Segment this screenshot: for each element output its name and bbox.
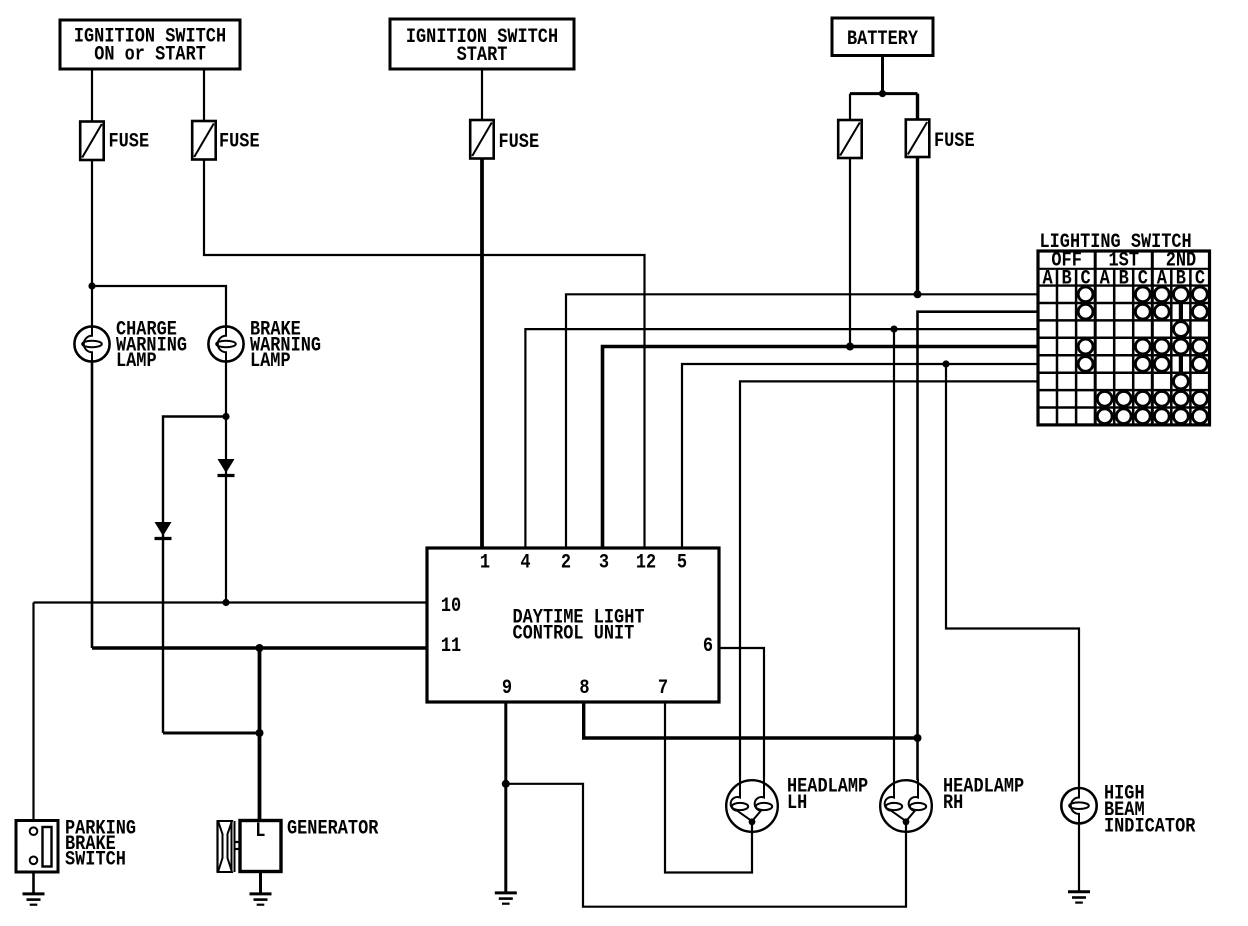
label: PARKING BRAKE SWITCH [65,818,136,872]
wire: pin 10 horizontal line [34,601,428,603]
node: junction on pin 9 wire [502,780,510,788]
wire: diode D2 branch horizontal [163,732,260,735]
wire: pin 8 to RH junction [584,702,918,738]
svg-text:A: A [1043,268,1053,291]
label: HIGH BEAM INDICATOR [1104,783,1195,839]
diode D1 [218,459,235,476]
svg-text:C: C [1081,268,1091,291]
generator [218,821,282,873]
svg-text:1: 1 [480,552,490,575]
svg-text:FUSE: FUSE [219,131,260,154]
wire: lighting switch row 2 to headlamp RH right [918,312,1039,781]
label: table column headers A B C [1043,268,1206,291]
fuse F5 [906,120,930,158]
box: DAYTIME LIGHT CONTROL UNIT [427,548,719,702]
label: OFF / 1ST / 2ND [1051,250,1196,273]
box: BATTERY [832,18,933,56]
node: battery split junction [879,90,886,97]
svg-text:LAMP: LAMP [250,350,291,373]
svg-text:B: B [1062,268,1072,291]
diode D2 [155,522,172,539]
svg-text:5: 5 [677,552,687,575]
svg-text:B: B [1119,268,1129,291]
label: IGNITION SWITCH ON or START [74,26,226,67]
svg-text:12: 12 [636,552,656,575]
wire: pin 11 horizontal line [92,646,427,650]
brake warning lamp [208,325,243,362]
wire: battery down to split [881,56,884,94]
wire: pin 9 to ground [504,702,507,893]
wire: pin 6 to headlamp LH right [719,648,764,780]
wire: pin 4 to lighting switch row 3 [525,329,1038,548]
wire: junction to brake warning lamp [92,286,226,326]
wire: fuse F4 down to row 4 [849,159,851,347]
node: junction generator/diode branch [256,729,264,737]
node: junction row4 / fuse F4 [846,343,854,351]
ground: high beam indicator [1068,892,1090,903]
wire: generator to ground [259,872,262,894]
svg-text:ON or START: ON or START [94,44,206,67]
label: HEADLAMP LH [787,776,868,816]
fuse F2 [192,121,216,160]
node: junction row3 / headlamp RH left [890,326,897,333]
svg-text:11: 11 [441,635,461,658]
fuse F1 [80,122,104,161]
lighting switch contact table [1038,251,1210,425]
fuse F4 [838,120,862,158]
node: junction above charge warning lamp [88,282,95,289]
label: HEADLAMP RH [943,776,1024,816]
headlamp RH [880,779,932,832]
wire: pin 2 to lighting switch row 1 [566,294,1038,548]
wire: diode D2 branch vertical [163,417,226,734]
svg-text:3: 3 [599,552,609,575]
box: IGNITION SWITCH START [390,19,574,69]
svg-text:A: A [1100,268,1110,291]
svg-text:6: 6 [703,635,713,658]
svg-text:FUSE: FUSE [109,131,150,154]
svg-text:2: 2 [561,552,571,575]
svg-text:SWITCH: SWITCH [65,848,126,871]
svg-text:START: START [457,44,508,67]
wire: ignition switch START to fuse F3 [481,69,483,120]
svg-text:7: 7 [658,677,668,700]
wire: lighting switch row 6 to headlamp LH left [740,381,1038,780]
svg-text:B: B [1176,268,1186,291]
wire: junction into charge warning lamp [91,286,93,326]
wire: row 3 junction down to headlamp RH left [893,329,895,780]
svg-text:10: 10 [441,595,461,618]
ground: pin 9 [495,893,517,904]
label: BRAKE WARNING LAMP [250,319,321,374]
svg-text:INDICATOR: INDICATOR [1104,816,1195,839]
node: junction row5 / high beam branch [942,360,949,367]
node: junction on pin 10 line [222,599,229,606]
wire: pin 5 to lighting switch row 5 [682,364,1038,548]
svg-text:LAMP: LAMP [116,350,157,373]
svg-text:FUSE: FUSE [499,131,540,154]
label: CHARGE WARNING LAMP [116,319,187,374]
svg-text:FUSE: FUSE [934,130,975,153]
svg-text:8: 8 [579,677,589,700]
wire: pin 10 line down to parking brake switch [32,603,34,828]
node: junction pin8 line / RH right wire [914,734,922,742]
headlamp LH [726,779,778,832]
wire: generator vertical [258,648,262,821]
high beam indicator lamp [1061,787,1096,824]
wire: fuse F3 to pin 1 [480,159,484,548]
wire: pin 9 branch to headlamp RH bottom [506,784,906,907]
wire: fuse F1 down to charge lamp junction [91,160,93,287]
parking brake switch [16,821,58,873]
wire: parking brake switch to ground [32,864,35,894]
wire: fuse F5 down to row 1 [916,157,919,294]
fuse F3 [470,120,494,159]
svg-text:CONTROL UNIT: CONTROL UNIT [513,622,635,645]
wire: pin 7 to headlamp LH bottom [665,702,752,873]
svg-text:9: 9 [502,677,512,700]
svg-text:BATTERY: BATTERY [847,28,918,51]
svg-text:LH: LH [787,792,807,815]
svg-text:C: C [1138,268,1148,291]
wire: high beam indicator to ground [1078,823,1080,891]
box: IGNITION SWITCH ON or START [60,20,240,69]
wire: split to fuse F5 [916,94,919,120]
svg-text:4: 4 [520,552,530,575]
wire: charge lamp down to pin 11 corner [91,362,94,648]
svg-text:L: L [255,820,265,843]
node: junction pin11/generator [256,644,264,652]
svg-text:GENERATOR: GENERATOR [287,818,378,841]
wire: ignition switch 1 to fuse F1 [91,69,93,122]
ground: generator [250,894,272,905]
label: DAYTIME LIGHT CONTROL UNIT [513,606,645,645]
wire: ignition switch 1 to fuse F2 [203,69,205,121]
wire: battery split horizontal [850,92,918,95]
ground: parking brake switch [23,894,45,905]
svg-text:A: A [1157,268,1167,291]
wire: brake lamp through diode D1 to pin 10 line [225,362,227,603]
wire: split to fuse F4 [849,94,851,120]
svg-text:RH: RH [943,792,963,815]
wire: pin 3 to lighting switch row 4 [603,347,1039,549]
label: IGNITION SWITCH START [406,26,558,67]
node: junction row1 / battery fuse F5 [914,290,922,298]
charge warning lamp [74,325,109,362]
wire: fuse F2 to pin 12 [204,159,645,548]
wire: row 5 junction to high beam indicator [946,364,1079,788]
svg-text:C: C [1195,268,1205,291]
node: junction brake lamp / diode branch [222,413,229,420]
